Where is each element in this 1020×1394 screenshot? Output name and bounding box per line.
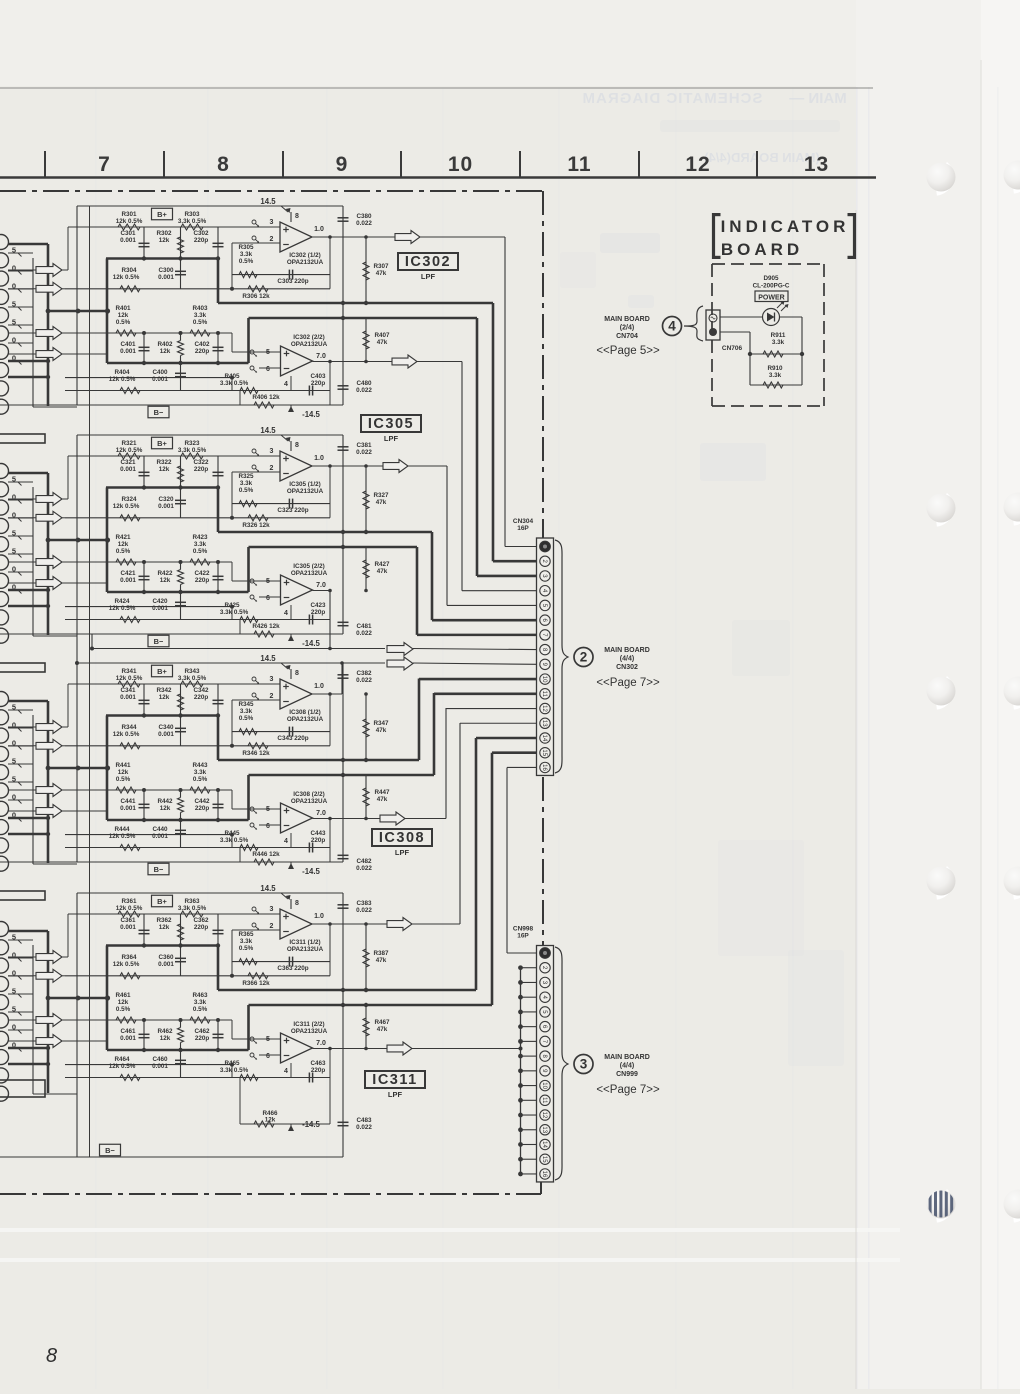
svg-text:<<Page 7>>: <<Page 7>> <box>596 1084 660 1096</box>
svg-text:R347: R347 <box>373 720 389 727</box>
svg-text:IC305 (2/2): IC305 (2/2) <box>293 563 325 570</box>
svg-text:R303: R303 <box>184 211 200 218</box>
svg-text:0.001: 0.001 <box>120 237 136 244</box>
svg-text:R467: R467 <box>374 1019 390 1026</box>
svg-text:1.0: 1.0 <box>314 913 324 920</box>
svg-text:3.3k 0.5%: 3.3k 0.5% <box>178 218 207 225</box>
svg-text:7: 7 <box>98 153 111 176</box>
svg-text:R361: R361 <box>121 898 137 905</box>
svg-text:6: 6 <box>266 823 270 830</box>
svg-text:-14.5: -14.5 <box>302 867 320 876</box>
svg-text:47k: 47k <box>376 499 387 506</box>
svg-text:R405: R405 <box>224 373 240 380</box>
svg-text:220p: 220p <box>195 805 210 812</box>
svg-text:R363: R363 <box>184 898 200 905</box>
svg-text:C462: C462 <box>194 1028 210 1035</box>
svg-text:C443: C443 <box>310 830 326 837</box>
svg-text:R304: R304 <box>121 267 137 274</box>
svg-text:-14.5: -14.5 <box>302 1120 320 1129</box>
svg-text:C482: C482 <box>356 858 372 865</box>
svg-text:R426 12k: R426 12k <box>252 623 280 630</box>
svg-text:OPA2132UA: OPA2132UA <box>287 259 324 266</box>
svg-text:R423: R423 <box>192 534 208 541</box>
svg-text:C420: C420 <box>152 598 168 605</box>
svg-text:R406 12k: R406 12k <box>252 394 280 401</box>
svg-text:0.5%: 0.5% <box>193 319 208 326</box>
svg-text:IC305 (1/2): IC305 (1/2) <box>289 481 321 488</box>
svg-text:IC308 (2/2): IC308 (2/2) <box>293 791 325 798</box>
svg-text:R325: R325 <box>238 473 254 480</box>
svg-text:OPA2132UA: OPA2132UA <box>291 798 328 805</box>
svg-text:OPA2132UA: OPA2132UA <box>287 488 324 495</box>
svg-text:LPF: LPF <box>421 272 436 281</box>
svg-text:220p: 220p <box>311 380 326 387</box>
svg-text:C381: C381 <box>356 442 372 449</box>
svg-text:INDICATOR: INDICATOR <box>721 217 850 236</box>
svg-text:B−: B− <box>154 408 164 417</box>
svg-text:8: 8 <box>295 442 299 449</box>
svg-text:0.022: 0.022 <box>356 220 372 227</box>
svg-text:3.3k 0.5%: 3.3k 0.5% <box>178 905 207 912</box>
svg-text:0.001: 0.001 <box>152 605 168 612</box>
svg-text:R305: R305 <box>238 244 254 251</box>
svg-text:CN704: CN704 <box>616 333 638 340</box>
svg-text:C401: C401 <box>120 341 136 348</box>
svg-text:220p: 220p <box>194 466 209 473</box>
svg-text:1.0: 1.0 <box>314 683 324 690</box>
svg-text:13: 13 <box>804 153 829 176</box>
svg-text:8: 8 <box>295 670 299 677</box>
svg-text:R324: R324 <box>121 496 137 503</box>
svg-text:6: 6 <box>266 1053 270 1060</box>
svg-text:12k: 12k <box>118 999 129 1006</box>
svg-text:8: 8 <box>295 900 299 907</box>
svg-text:0.001: 0.001 <box>158 503 174 510</box>
svg-text:14.5: 14.5 <box>260 884 276 893</box>
svg-text:C423: C423 <box>310 602 326 609</box>
svg-text:4: 4 <box>284 838 288 845</box>
svg-text:0.001: 0.001 <box>120 1035 136 1042</box>
svg-text:0.5%: 0.5% <box>239 487 254 494</box>
svg-text:0.022: 0.022 <box>356 865 372 872</box>
svg-text:14: 14 <box>541 1141 547 1148</box>
svg-text:12k: 12k <box>265 1117 276 1124</box>
svg-text:5: 5 <box>266 806 270 813</box>
svg-text:6: 6 <box>266 366 270 373</box>
svg-text:C380: C380 <box>356 213 372 220</box>
svg-text:3.3k: 3.3k <box>772 339 785 346</box>
svg-text:C421: C421 <box>120 570 136 577</box>
svg-text:0.5%: 0.5% <box>116 1006 131 1013</box>
svg-text:LPF: LPF <box>395 848 410 857</box>
svg-text:12k 0.5%: 12k 0.5% <box>109 833 136 840</box>
svg-text:B−: B− <box>154 637 164 646</box>
svg-text:3.3k: 3.3k <box>194 769 207 776</box>
svg-text:220p: 220p <box>195 348 210 355</box>
svg-text:0.001: 0.001 <box>158 274 174 281</box>
svg-text:C321: C321 <box>120 459 136 466</box>
svg-text:12k: 12k <box>160 805 171 812</box>
svg-text:C400: C400 <box>152 369 168 376</box>
svg-text:C363 220p: C363 220p <box>277 965 308 972</box>
svg-text:220p: 220p <box>194 924 209 931</box>
svg-text:3.3k 0.5%: 3.3k 0.5% <box>220 1067 249 1074</box>
svg-text:C301: C301 <box>120 230 136 237</box>
svg-text:C480: C480 <box>356 380 372 387</box>
svg-text:R464: R464 <box>114 1056 130 1063</box>
svg-text:R322: R322 <box>156 459 172 466</box>
svg-text:47k: 47k <box>377 796 388 803</box>
svg-text:10: 10 <box>541 676 547 683</box>
svg-text:0.001: 0.001 <box>120 577 136 584</box>
svg-text:14.5: 14.5 <box>260 197 276 206</box>
svg-text:R323: R323 <box>184 440 200 447</box>
svg-text:220p: 220p <box>311 837 326 844</box>
svg-text:3.3k: 3.3k <box>240 708 253 715</box>
svg-text:12k 0.5%: 12k 0.5% <box>113 731 140 738</box>
svg-text:B+: B+ <box>157 210 167 219</box>
svg-text:13: 13 <box>541 1126 547 1133</box>
svg-text:OPA2132UA: OPA2132UA <box>291 341 328 348</box>
svg-text:R307: R307 <box>373 263 389 270</box>
svg-text:47k: 47k <box>376 957 387 964</box>
svg-text:R446 12k: R446 12k <box>252 851 280 858</box>
svg-text:12k 0.5%: 12k 0.5% <box>109 605 136 612</box>
svg-text:-14.5: -14.5 <box>302 639 320 648</box>
svg-text:12: 12 <box>685 153 710 176</box>
svg-text:B+: B+ <box>157 439 167 448</box>
svg-text:0.022: 0.022 <box>356 1124 372 1131</box>
svg-text:IC311 (2/2): IC311 (2/2) <box>293 1021 324 1028</box>
svg-text:D905: D905 <box>763 275 779 282</box>
svg-text:47k: 47k <box>376 270 387 277</box>
svg-text:12k 0.5%: 12k 0.5% <box>113 961 140 968</box>
svg-text:11: 11 <box>541 1097 547 1104</box>
svg-text:47k: 47k <box>376 727 387 734</box>
svg-text:3.3k: 3.3k <box>194 541 207 548</box>
svg-text:3: 3 <box>270 219 274 226</box>
svg-text:IC311: IC311 <box>372 1072 417 1088</box>
svg-text:4: 4 <box>284 610 288 617</box>
svg-text:2: 2 <box>270 236 274 243</box>
svg-text:CN999: CN999 <box>616 1071 638 1078</box>
svg-text:R366 12k: R366 12k <box>242 980 270 987</box>
svg-text:OPA2132UA: OPA2132UA <box>287 946 324 953</box>
svg-text:R365: R365 <box>238 931 254 938</box>
svg-text:C343 220p: C343 220p <box>277 735 308 742</box>
svg-text:C442: C442 <box>194 798 210 805</box>
svg-text:0.5%: 0.5% <box>239 715 254 722</box>
svg-text:0.5%: 0.5% <box>116 319 131 326</box>
svg-text:3.3k 0.5%: 3.3k 0.5% <box>220 837 249 844</box>
svg-text:13: 13 <box>541 720 547 727</box>
svg-text:C483: C483 <box>356 1117 372 1124</box>
svg-text:12k: 12k <box>160 577 171 584</box>
svg-text:16P: 16P <box>517 525 529 532</box>
svg-text:C383: C383 <box>356 900 372 907</box>
svg-text:C362: C362 <box>193 917 209 924</box>
svg-text:14: 14 <box>541 735 547 742</box>
svg-text:C300: C300 <box>158 267 174 274</box>
svg-text:0.022: 0.022 <box>356 387 372 394</box>
svg-text:R344: R344 <box>121 724 137 731</box>
svg-text:7.0: 7.0 <box>316 582 326 589</box>
svg-text:220p: 220p <box>195 577 210 584</box>
svg-text:R301: R301 <box>121 211 137 218</box>
svg-text:220p: 220p <box>311 609 326 616</box>
svg-text:3: 3 <box>270 676 274 683</box>
svg-text:12: 12 <box>541 1112 547 1119</box>
svg-text:OPA2132UA: OPA2132UA <box>291 570 328 577</box>
svg-text:0.5%: 0.5% <box>193 776 208 783</box>
svg-text:MAIN BOARD: MAIN BOARD <box>604 647 650 654</box>
svg-text:R327: R327 <box>373 492 389 499</box>
svg-text:0.001: 0.001 <box>158 961 174 968</box>
svg-text:2: 2 <box>270 923 274 930</box>
svg-text:12k 0.5%: 12k 0.5% <box>109 376 136 383</box>
svg-text:5: 5 <box>266 578 270 585</box>
svg-text:1.0: 1.0 <box>314 226 324 233</box>
svg-text:B+: B+ <box>157 897 167 906</box>
svg-text:IC302 (1/2): IC302 (1/2) <box>289 252 321 259</box>
svg-text:220p: 220p <box>194 237 209 244</box>
svg-text:8: 8 <box>295 213 299 220</box>
svg-text:R404: R404 <box>114 369 130 376</box>
svg-text:(2/4): (2/4) <box>620 325 634 332</box>
svg-text:0.001: 0.001 <box>152 376 168 383</box>
svg-text:3.3k 0.5%: 3.3k 0.5% <box>178 675 207 682</box>
svg-text:12k: 12k <box>118 769 129 776</box>
svg-text:R462: R462 <box>157 1028 173 1035</box>
svg-text:0.5%: 0.5% <box>193 548 208 555</box>
svg-text:5: 5 <box>266 1036 270 1043</box>
svg-text:POWER: POWER <box>758 295 784 302</box>
svg-text:<<Page 5>>: <<Page 5>> <box>596 345 660 357</box>
svg-text:3.3k 0.5%: 3.3k 0.5% <box>220 380 249 387</box>
svg-text:12k: 12k <box>159 237 170 244</box>
svg-text:15: 15 <box>541 749 547 756</box>
svg-text:CN304: CN304 <box>513 518 534 525</box>
svg-text:R321: R321 <box>121 440 137 447</box>
svg-text:6: 6 <box>266 595 270 602</box>
svg-text:R342: R342 <box>156 687 172 694</box>
svg-text:MAIN BOARD: MAIN BOARD <box>604 1054 650 1061</box>
svg-text:0.5%: 0.5% <box>116 548 131 555</box>
svg-text:11: 11 <box>567 153 591 176</box>
svg-text:C340: C340 <box>158 724 174 731</box>
svg-text:R427: R427 <box>374 561 390 568</box>
svg-text:R387: R387 <box>373 950 389 957</box>
svg-text:CN302: CN302 <box>616 664 638 671</box>
svg-text:47k: 47k <box>377 1026 388 1033</box>
svg-text:3.3k: 3.3k <box>240 938 253 945</box>
svg-text:2: 2 <box>270 465 274 472</box>
svg-text:0.001: 0.001 <box>120 805 136 812</box>
svg-text:220p: 220p <box>195 1035 210 1042</box>
svg-text:IC305: IC305 <box>368 416 414 432</box>
svg-text:3.3k: 3.3k <box>240 251 253 258</box>
svg-text:220p: 220p <box>311 1067 326 1074</box>
svg-text:IC311 (1/2): IC311 (1/2) <box>289 939 320 946</box>
svg-text:7.0: 7.0 <box>316 1040 326 1047</box>
svg-text:4: 4 <box>284 381 288 388</box>
svg-text:C402: C402 <box>194 341 210 348</box>
svg-text:R341: R341 <box>121 668 137 675</box>
svg-text:C341: C341 <box>120 687 136 694</box>
svg-text:R447: R447 <box>374 789 390 796</box>
svg-text:R306 12k: R306 12k <box>242 293 270 300</box>
svg-text:R421: R421 <box>115 534 131 541</box>
svg-text:R364: R364 <box>121 954 137 961</box>
svg-text:12k: 12k <box>160 348 171 355</box>
svg-text:0.022: 0.022 <box>356 677 372 684</box>
svg-text:3: 3 <box>580 1057 588 1072</box>
svg-text:R422: R422 <box>157 570 173 577</box>
svg-text:R362: R362 <box>156 917 172 924</box>
svg-text:8: 8 <box>217 153 230 176</box>
svg-text:12k: 12k <box>118 312 129 319</box>
svg-text:3.3k: 3.3k <box>194 999 207 1006</box>
svg-text:3: 3 <box>270 448 274 455</box>
svg-text:R911: R911 <box>771 332 786 339</box>
svg-text:12k: 12k <box>159 924 170 931</box>
svg-text:R425: R425 <box>224 602 240 609</box>
svg-text:0.001: 0.001 <box>152 833 168 840</box>
svg-text:C460: C460 <box>152 1056 168 1063</box>
svg-text:R445: R445 <box>224 830 240 837</box>
svg-text:R463: R463 <box>192 992 208 999</box>
svg-text:C342: C342 <box>193 687 209 694</box>
svg-text:3.3k 0.5%: 3.3k 0.5% <box>178 447 207 454</box>
svg-text:3: 3 <box>270 906 274 913</box>
svg-text:C382: C382 <box>356 670 372 677</box>
svg-text:C461: C461 <box>120 1028 136 1035</box>
svg-text:OPA2132UA: OPA2132UA <box>287 716 324 723</box>
svg-text:47k: 47k <box>377 339 388 346</box>
svg-text:12k 0.5%: 12k 0.5% <box>109 1063 136 1070</box>
svg-text:10: 10 <box>448 153 473 176</box>
svg-text:4: 4 <box>284 1068 288 1075</box>
svg-text:C361: C361 <box>120 917 136 924</box>
svg-text:12k: 12k <box>159 694 170 701</box>
svg-text:C302: C302 <box>193 230 209 237</box>
svg-text:16: 16 <box>541 764 547 771</box>
svg-text:B−: B− <box>154 865 164 874</box>
svg-text:5: 5 <box>266 349 270 356</box>
svg-text:SCHEMATIC DIAGRAM: SCHEMATIC DIAGRAM <box>582 90 763 107</box>
svg-text:C323 220p: C323 220p <box>277 507 308 514</box>
svg-text:4: 4 <box>668 319 676 334</box>
svg-text:(4/4): (4/4) <box>620 656 634 663</box>
svg-text:C422: C422 <box>194 570 210 577</box>
svg-text:C441: C441 <box>120 798 136 805</box>
svg-text:-14.5: -14.5 <box>302 410 320 419</box>
svg-text:0.5%: 0.5% <box>116 776 131 783</box>
svg-text:R465: R465 <box>224 1060 240 1067</box>
svg-text:0.001: 0.001 <box>158 731 174 738</box>
svg-text:12k 0.5%: 12k 0.5% <box>113 274 140 281</box>
svg-text:R346 12k: R346 12k <box>242 750 270 757</box>
svg-text:R443: R443 <box>192 762 208 769</box>
svg-text:15: 15 <box>541 1156 547 1163</box>
svg-text:(4/4): (4/4) <box>620 1063 634 1070</box>
svg-text:R910: R910 <box>767 365 783 372</box>
svg-text:0.022: 0.022 <box>356 449 372 456</box>
svg-text:C440: C440 <box>152 826 168 833</box>
svg-text:1.0: 1.0 <box>314 455 324 462</box>
svg-text:0.001: 0.001 <box>120 466 136 473</box>
svg-text:0.022: 0.022 <box>356 907 372 914</box>
svg-text:C303 220p: C303 220p <box>277 278 308 285</box>
svg-text:IC308: IC308 <box>379 830 425 846</box>
svg-text:CL-200PG-C: CL-200PG-C <box>753 283 790 290</box>
svg-text:0.001: 0.001 <box>152 1063 168 1070</box>
svg-text:12k: 12k <box>159 466 170 473</box>
svg-text:C320: C320 <box>158 496 174 503</box>
svg-text:C322: C322 <box>193 459 209 466</box>
svg-text:IC302: IC302 <box>405 254 451 270</box>
svg-text:(MAIN BOARD(4/4): (MAIN BOARD(4/4) <box>704 150 820 165</box>
svg-text:0.5%: 0.5% <box>239 945 254 952</box>
svg-text:7.0: 7.0 <box>316 353 326 360</box>
svg-text:R444: R444 <box>114 826 130 833</box>
svg-text:R403: R403 <box>192 305 208 312</box>
svg-text:B−: B− <box>105 1146 115 1155</box>
svg-text:16: 16 <box>541 1171 547 1178</box>
svg-text:C403: C403 <box>310 373 326 380</box>
svg-text:CN706: CN706 <box>722 345 743 352</box>
svg-text:3.3k: 3.3k <box>769 372 782 379</box>
svg-text:8: 8 <box>46 1345 57 1367</box>
svg-text:3.3k 0.5%: 3.3k 0.5% <box>220 609 249 616</box>
svg-text:MAIN BOARD: MAIN BOARD <box>604 316 650 323</box>
svg-text:9: 9 <box>336 153 349 176</box>
svg-text:R424: R424 <box>114 598 130 605</box>
svg-text:OPA2132UA: OPA2132UA <box>291 1028 328 1035</box>
svg-text:CN998: CN998 <box>513 926 534 933</box>
svg-text:12k: 12k <box>118 541 129 548</box>
svg-text:47k: 47k <box>377 568 388 575</box>
svg-text:11: 11 <box>541 691 547 698</box>
svg-text:C463: C463 <box>310 1060 326 1067</box>
svg-text:<<Page 7>>: <<Page 7>> <box>596 677 660 689</box>
svg-text:0.001: 0.001 <box>120 348 136 355</box>
svg-text:R302: R302 <box>156 230 172 237</box>
svg-text:2: 2 <box>580 650 588 665</box>
svg-text:IC302 (2/2): IC302 (2/2) <box>293 334 325 341</box>
svg-text:14.5: 14.5 <box>260 426 276 435</box>
svg-text:12: 12 <box>541 705 547 712</box>
svg-text:B+: B+ <box>157 667 167 676</box>
svg-text:LPF: LPF <box>388 1090 403 1099</box>
svg-text:R345: R345 <box>238 701 254 708</box>
svg-text:R442: R442 <box>157 798 173 805</box>
svg-text:BOARD: BOARD <box>721 240 803 259</box>
svg-text:0.022: 0.022 <box>356 630 372 637</box>
svg-text:2: 2 <box>270 693 274 700</box>
svg-text:R343: R343 <box>184 668 200 675</box>
svg-text:10: 10 <box>541 1082 547 1089</box>
svg-text:IC308 (1/2): IC308 (1/2) <box>289 709 321 716</box>
svg-text:R461: R461 <box>115 992 131 999</box>
svg-text:16P: 16P <box>517 933 529 940</box>
svg-text:3.3k: 3.3k <box>240 480 253 487</box>
svg-text:3.3k: 3.3k <box>194 312 207 319</box>
svg-text:12k: 12k <box>160 1035 171 1042</box>
svg-text:0.001: 0.001 <box>120 694 136 701</box>
svg-text:220p: 220p <box>194 694 209 701</box>
svg-text:14.5: 14.5 <box>260 654 276 663</box>
